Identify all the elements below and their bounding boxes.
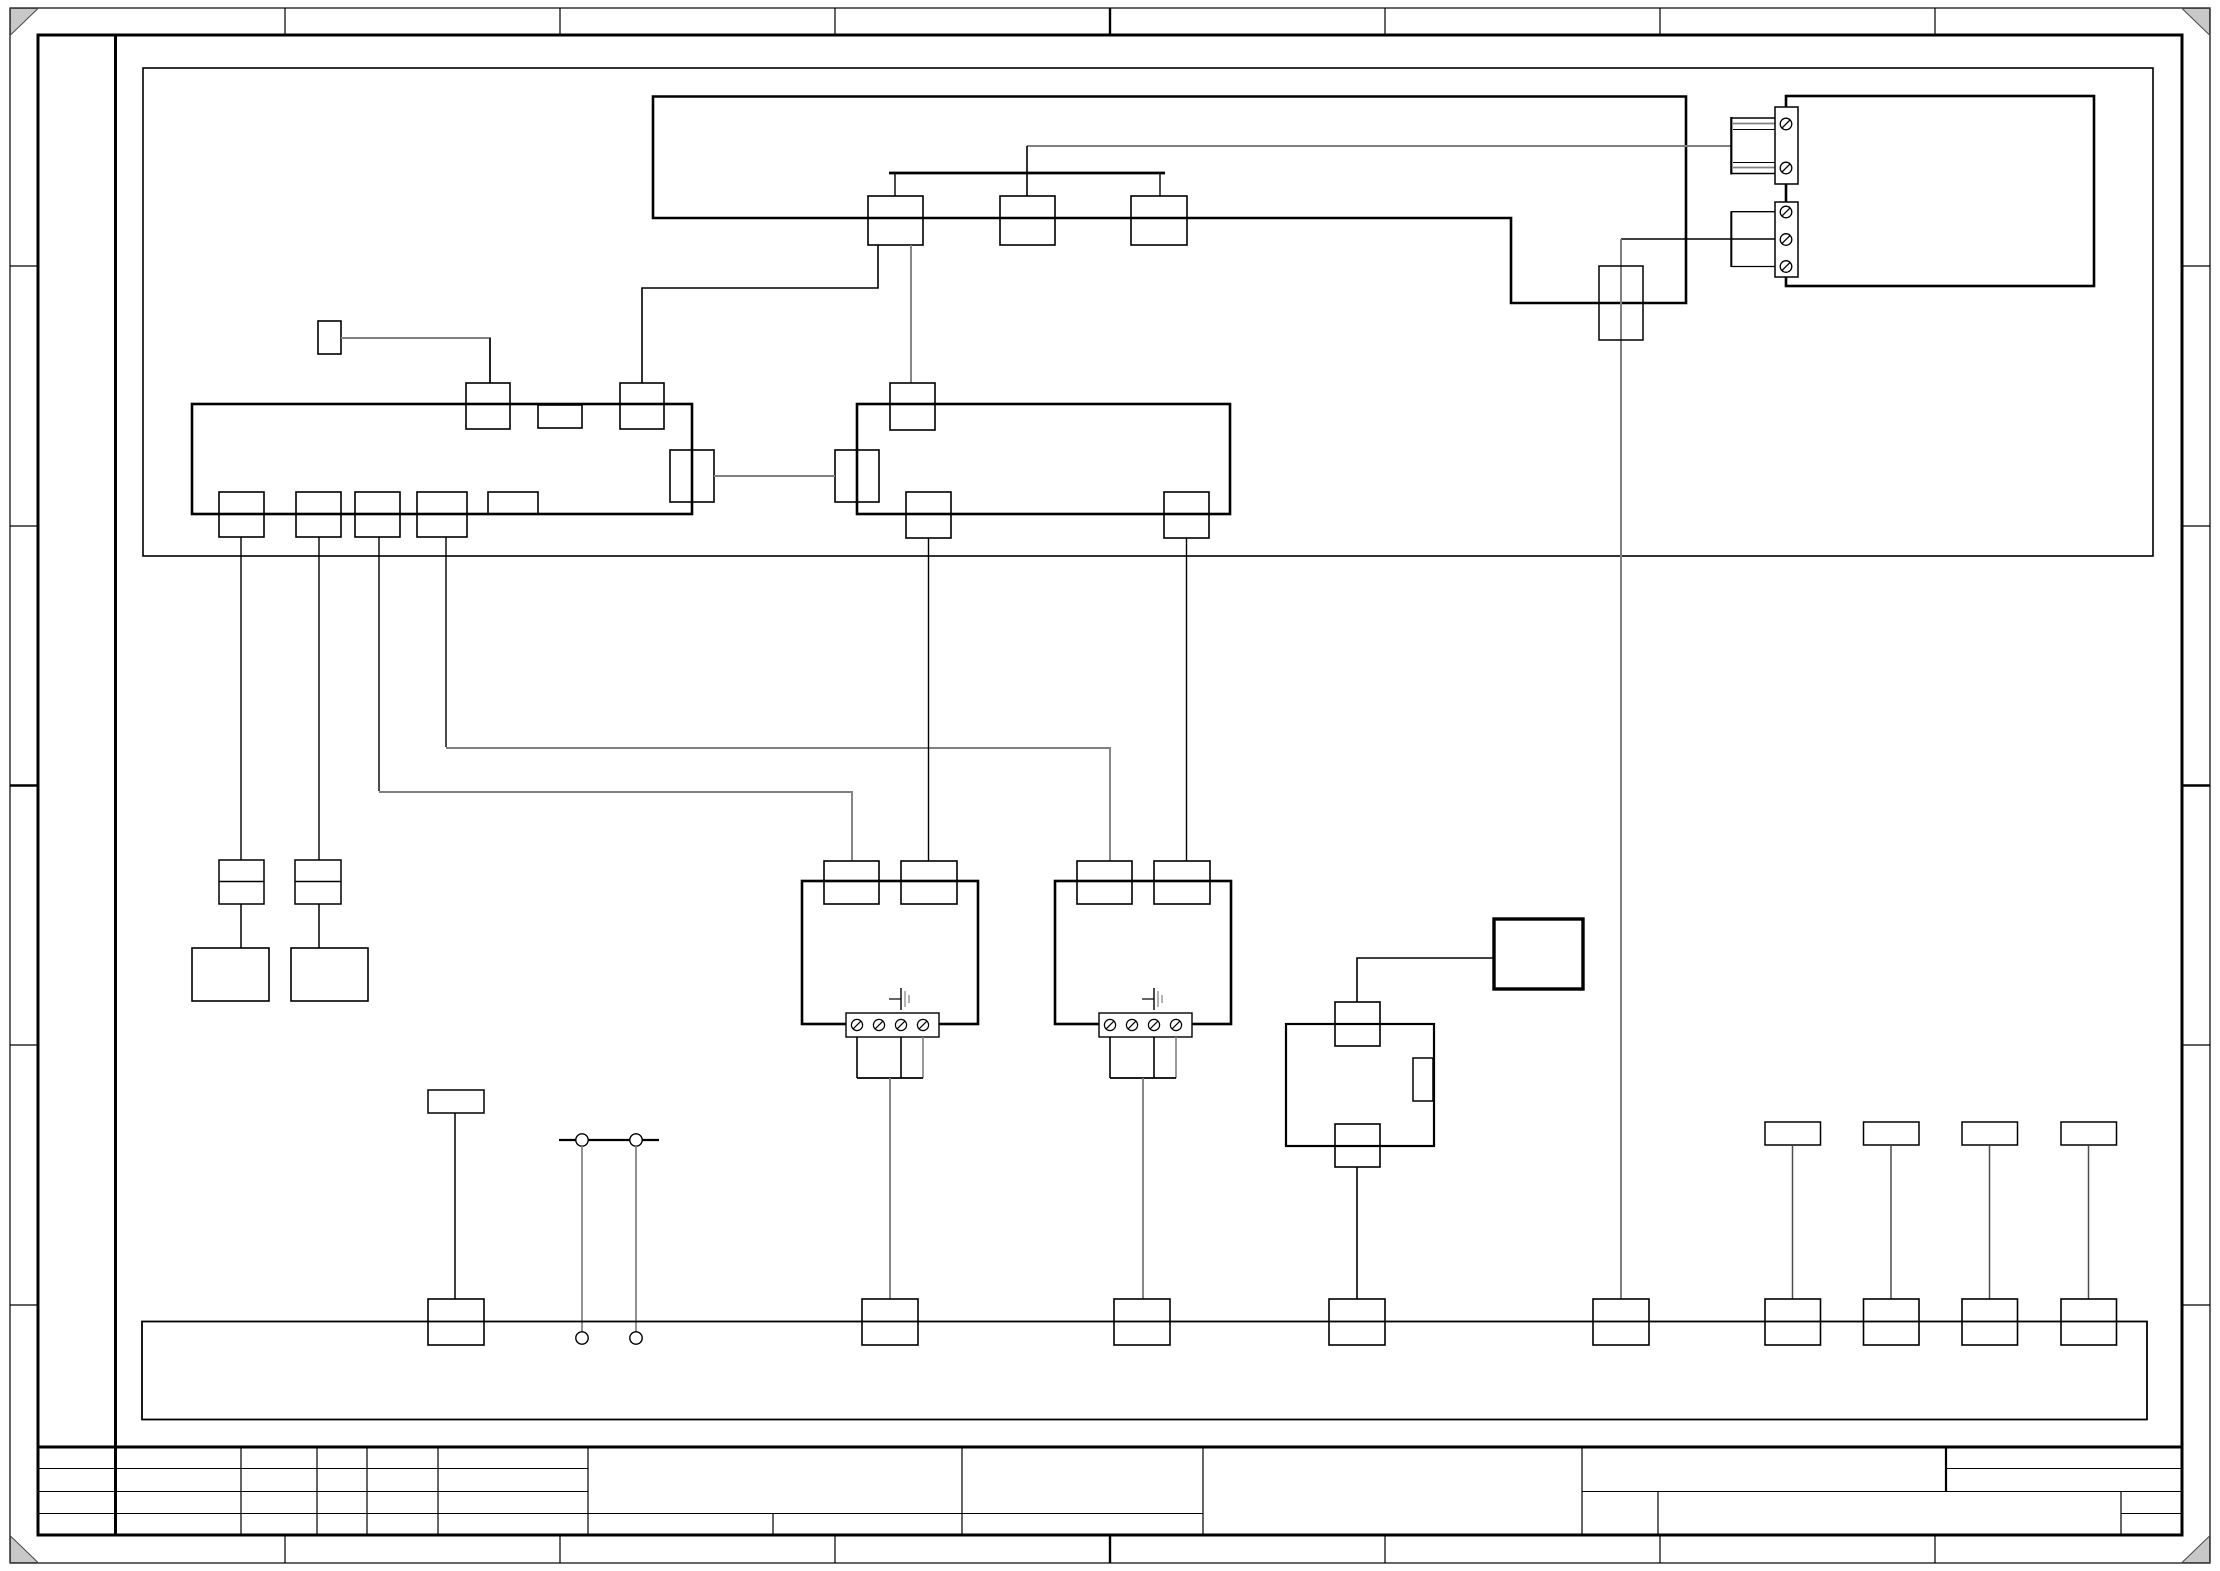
wire: plug M2 to busbar tap (gray)	[1142, 1078, 1144, 1299]
border zone tick bottom	[834, 1535, 836, 1563]
device box D1	[428, 1090, 484, 1113]
wire: K1 to box E1	[240, 904, 242, 948]
wire W3: P3 to relay M1 left port	[378, 537, 380, 791]
border zone tick left	[10, 784, 38, 786]
bottom busbar duct	[142, 1322, 2147, 1420]
signal ground symbol in M1	[889, 998, 901, 1000]
link contact circle right top	[630, 1134, 642, 1146]
relay M1 right port	[901, 861, 957, 904]
inline connector K1	[219, 860, 264, 904]
screw terminal 4 of M1	[917, 1019, 928, 1030]
corner trim triangle top-left	[11, 9, 39, 36]
device B left port	[835, 450, 879, 502]
screw terminal 4 of M2	[1170, 1019, 1181, 1030]
wire: X6 middle terminal feed	[1621, 238, 1775, 240]
device A port A	[466, 383, 510, 429]
duct port T3	[1131, 196, 1187, 245]
sensor S1	[318, 321, 341, 354]
duct port T2	[1000, 196, 1055, 245]
border zone tick right	[2182, 265, 2210, 267]
connector X4 body bar	[1730, 117, 1732, 175]
border zone tick bottom	[559, 1535, 561, 1563]
wire W2: P2 down to connector K2	[318, 537, 320, 860]
wire W1: P1 down to connector K1	[240, 537, 242, 860]
lamp H4 head	[2061, 1122, 2117, 1145]
wire: lamp H1 to busbar tap	[1792, 1146, 1794, 1299]
plug housing under M1	[856, 1037, 858, 1078]
riser wire to busbar (gray)	[1620, 239, 1622, 1299]
corner trim triangle top-right	[2182, 9, 2210, 36]
border zone tick right	[2182, 525, 2210, 527]
title block sub row right	[2121, 1513, 2182, 1515]
wire: device A to device B (gray)	[714, 475, 835, 477]
wire: block X6 jumper bracket	[1730, 211, 1732, 267]
controller device A	[192, 404, 692, 514]
frame left column divider	[114, 35, 117, 1535]
wire W4: P4 to relay M2 left port	[445, 537, 447, 747]
screw 1 of X6	[1780, 206, 1792, 218]
wire: J1 to power box PS	[1357, 958, 1494, 1002]
title block column j (heavy)	[1945, 1447, 1947, 1491]
title block column f (bottom row)	[772, 1513, 774, 1535]
border zone tick bottom	[1384, 1535, 1386, 1563]
title block row line right	[1582, 1491, 2182, 1493]
busbar tap for M2	[1114, 1299, 1170, 1345]
border zone tick right	[2182, 1304, 2210, 1306]
title block column i	[1581, 1447, 1583, 1535]
device B bottom port B2	[1164, 492, 1209, 538]
border zone tick top	[284, 8, 286, 35]
device B bottom port B1	[906, 492, 951, 538]
wire: X6 to device R bottom stub	[1785, 277, 1787, 286]
wire: T1 to device A port C	[642, 245, 878, 383]
border zone tick left	[10, 1304, 38, 1306]
border zone tick left	[10, 1044, 38, 1046]
screw 2 of X6	[1780, 234, 1792, 246]
wire: B2 down to relay M2 right port	[1186, 538, 1188, 861]
busbar tap for M1	[862, 1299, 918, 1345]
device A bottom port P1	[219, 492, 264, 537]
screw 2 of X5	[1780, 162, 1792, 174]
device A bottom port P3	[355, 492, 400, 537]
wire: B1 down to relay M1 right port	[928, 538, 930, 861]
border zone tick bottom	[284, 1535, 286, 1563]
wire: lamp H3 to busbar tap	[1989, 1146, 1991, 1299]
feedthrough terminal on duct	[1599, 266, 1643, 340]
controller device B	[857, 404, 1230, 514]
border zone tick top	[1659, 8, 1661, 35]
device B top port	[890, 383, 935, 430]
wire: link right down (gray)	[635, 1146, 637, 1332]
lamp H3 head	[1962, 1122, 2018, 1145]
lamp H2 head	[1864, 1122, 1920, 1145]
wire: link left down (gray)	[581, 1146, 583, 1332]
relay M2 left port	[1077, 861, 1132, 904]
relay module M1	[802, 881, 978, 1024]
remote device R (top right)	[1786, 96, 2094, 286]
busbar tap for D1	[428, 1299, 484, 1345]
screw terminal 2 of M2	[1126, 1019, 1137, 1030]
terminal strip of M2	[1099, 1013, 1192, 1037]
terminal strip of M1	[846, 1013, 939, 1037]
title block column h	[1202, 1447, 1204, 1535]
title block column e	[587, 1447, 589, 1535]
wire: device R top stub	[1785, 96, 1787, 107]
device A bottom port P2	[296, 492, 341, 537]
wire: bus drop to port T3	[1159, 173, 1161, 196]
border zone tick top	[834, 8, 836, 35]
relay M2 right port	[1154, 861, 1210, 904]
device A bottom port P4	[417, 492, 467, 537]
cabinet enclosure outline (top band)	[143, 68, 2153, 556]
screw 1 of X5	[1780, 118, 1792, 130]
junction J1 top port	[1335, 1002, 1380, 1046]
screw terminal 1 of M1	[851, 1019, 862, 1030]
title block column a	[240, 1447, 242, 1535]
border zone tick top	[559, 8, 561, 35]
connector X4 pin lines lower	[1733, 162, 1775, 164]
device A port B	[538, 405, 582, 428]
wire: D1 down to busbar tap	[454, 1113, 456, 1299]
title block row line 3	[38, 1513, 1203, 1515]
wire: bus to connector X4 (gray)	[1027, 145, 1731, 147]
busbar tap for riser	[1593, 1299, 1649, 1345]
wire: bus drop to port T1	[894, 173, 896, 196]
signal ground symbol in M2	[1142, 998, 1154, 1000]
inline connector K2	[295, 860, 341, 904]
border zone tick left	[10, 265, 38, 267]
device A bottom port P5	[488, 492, 538, 514]
connector X4 pin lines upper	[1731, 117, 1775, 119]
device A right port	[670, 450, 714, 502]
link bar	[559, 1139, 659, 1141]
border zone tick top	[1109, 8, 1111, 35]
relay M1 left port	[824, 861, 879, 904]
link contact circle left top	[576, 1134, 588, 1146]
border zone tick top	[1384, 8, 1386, 35]
title block column c	[366, 1447, 368, 1535]
box E1	[192, 948, 269, 1001]
device A port C	[620, 383, 664, 429]
wire: plug M1 to busbar tap (gray)	[889, 1078, 891, 1299]
busbar tap for H3	[1962, 1299, 2018, 1345]
title block column g	[961, 1447, 963, 1535]
corner trim triangle bottom-right	[2182, 1536, 2210, 1563]
screw terminal 3 of M2	[1148, 1019, 1159, 1030]
screw terminal 2 of M1	[873, 1019, 884, 1030]
wiring duct outline W1 (notched polygon)	[653, 97, 1686, 304]
title block row line 2	[38, 1491, 588, 1493]
wire: S1 to device A port A	[341, 338, 490, 383]
screw 3 of X6	[1780, 261, 1792, 273]
duct port T1	[868, 196, 923, 245]
wire: lamp H2 to busbar tap	[1890, 1146, 1892, 1299]
box E2	[291, 948, 368, 1001]
terminal block X6	[1775, 202, 1798, 277]
relay module M2	[1055, 881, 1231, 1024]
border zone tick right	[2182, 784, 2210, 786]
plug housing under M2	[1109, 1037, 1111, 1078]
title block column d	[437, 1447, 439, 1535]
corner trim triangle bottom-left	[11, 1536, 39, 1563]
border zone tick bottom	[1934, 1535, 1936, 1563]
title block column b	[316, 1447, 318, 1535]
screw terminal 1 of M2	[1104, 1019, 1115, 1030]
lamp H1 head	[1765, 1122, 1821, 1145]
junction J1 side box	[1413, 1058, 1433, 1101]
busbar tap for H2	[1864, 1299, 1920, 1345]
wire: X5 to X6 stub	[1785, 184, 1787, 202]
junction box J1	[1286, 1024, 1434, 1146]
wire: K2 to box E2	[318, 904, 320, 948]
busbar tap for J1	[1329, 1299, 1385, 1345]
screw terminal 3 of M1	[895, 1019, 906, 1030]
border zone tick bottom	[1109, 1535, 1111, 1563]
border zone tick left	[10, 525, 38, 527]
border zone tick bottom	[1659, 1535, 1661, 1563]
wire: T1 to device B top port (gray)	[910, 245, 912, 383]
terminal block X5	[1775, 107, 1798, 184]
title block column l	[2120, 1491, 2122, 1535]
junction J1 bottom port	[1335, 1124, 1380, 1167]
border zone tick top	[1934, 8, 1936, 35]
wire: J1 down to busbar tap	[1356, 1167, 1358, 1299]
busbar tap for H4	[2061, 1299, 2117, 1345]
link contact circle right bottom	[630, 1332, 642, 1344]
bus cable segment	[889, 172, 1165, 175]
power box PS	[1494, 919, 1583, 989]
title block top border	[38, 1446, 2182, 1449]
title block row line right upper	[1946, 1468, 2182, 1470]
title block row line 1	[38, 1468, 588, 1470]
wire: lamp H4 to busbar tap	[2088, 1146, 2090, 1299]
busbar tap for H1	[1765, 1299, 1821, 1345]
border zone tick right	[2182, 1044, 2210, 1046]
wire: bus drop to port T2	[1026, 146, 1028, 196]
link contact circle left bottom	[576, 1332, 588, 1344]
title block column k	[1657, 1491, 1659, 1535]
